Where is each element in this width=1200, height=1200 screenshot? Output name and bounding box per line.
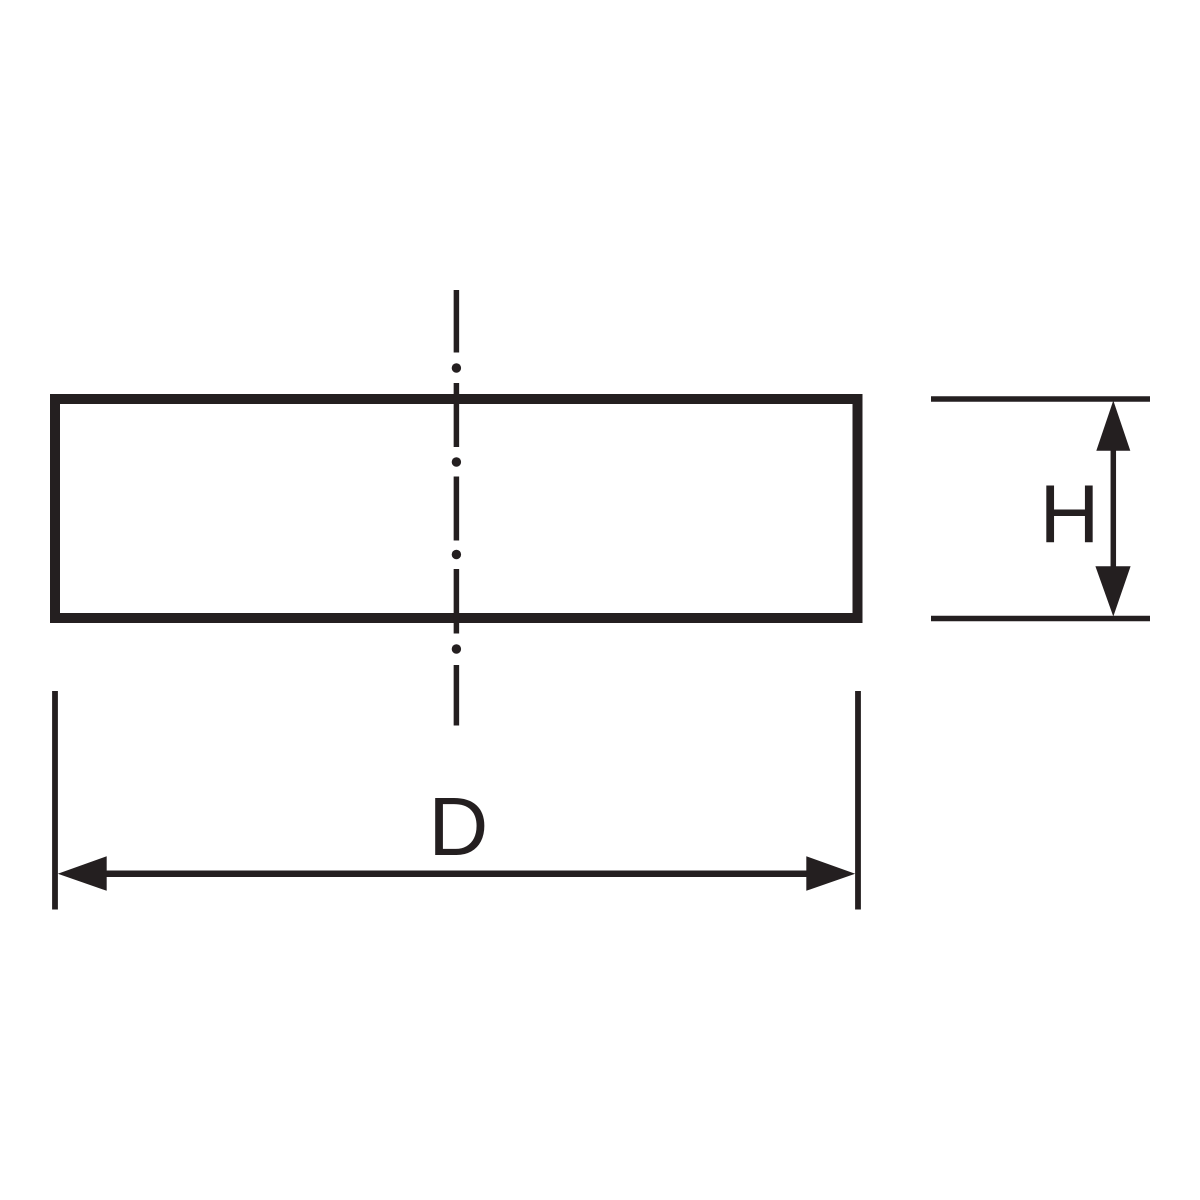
svg-text:H: H xyxy=(1040,467,1100,560)
svg-text:D: D xyxy=(428,780,488,873)
